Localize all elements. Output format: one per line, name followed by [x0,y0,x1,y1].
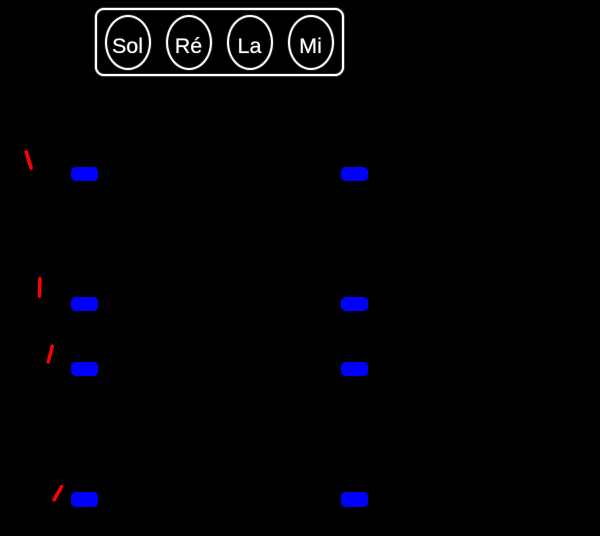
blue marker right row 3 [341,362,368,376]
note selector panel [95,8,344,77]
blue marker left row 4 [71,492,98,507]
blue marker left row 1 [71,167,98,181]
red segment 3 [48,346,52,362]
note button Mi [288,15,334,70]
red segment 1 [26,152,31,168]
blue marker right row 4 [341,492,368,507]
blue marker left row 2 [71,297,98,311]
note button La [227,15,273,70]
blue marker right row 1 [341,167,368,181]
blue marker left row 3 [71,362,98,376]
note button Sol [105,15,151,70]
red segment 4 [54,487,61,500]
note button Ré [166,15,212,70]
blue marker right row 2 [341,297,368,311]
red segment 2 [38,279,42,297]
